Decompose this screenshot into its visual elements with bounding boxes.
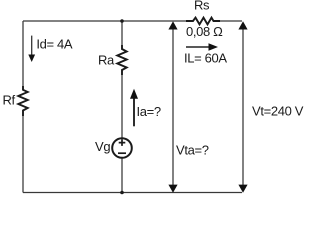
svg-text:Vta=?: Vta=? [176, 143, 209, 158]
node junction top (middle branch to top wire) [120, 19, 124, 23]
svg-text:Rf: Rf [3, 93, 16, 108]
label Vt=240 V [252, 104, 304, 119]
label IL= 60A [184, 51, 227, 66]
value label 0,08 Ω [186, 24, 223, 39]
voltage arrow Vt (double-headed vertical at x=243, right branch) [238, 21, 247, 193]
svg-text:IL= 60A: IL= 60A [184, 51, 227, 66]
wire middle branch (top junction to Ra, Ra to Vg, Vg to bottom junction) [121, 21, 123, 193]
label Vta=? [176, 143, 209, 158]
current arrow Id (pointing down) [28, 36, 35, 62]
svg-text:0,08 Ω: 0,08 Ω [186, 24, 223, 39]
svg-text:Id= 4A: Id= 4A [36, 37, 73, 52]
source Vg (circle with + and -) [112, 138, 132, 158]
svg-text:Ia=?: Ia=? [137, 104, 161, 119]
resistor Ra (vertical zigzag in middle branch) [117, 45, 126, 75]
wire bottom [23, 192, 242, 194]
label Id= 4A [36, 37, 73, 52]
svg-text:Rs: Rs [194, 0, 210, 13]
label Vg [95, 139, 110, 154]
label Ra [98, 53, 115, 68]
resistor Rs (horizontal zigzag in top wire) [186, 18, 220, 25]
voltage arrow Vta (double-headed vertical at x=173) [168, 21, 177, 193]
svg-text:Vg: Vg [95, 139, 110, 154]
svg-text:Vt=240 V: Vt=240 V [252, 104, 304, 119]
wire top (from top-left corner to top-right, with Rs inline) [23, 20, 242, 22]
wire left (top-left corner down to Rf, and Rf to bottom-left corner) [22, 21, 24, 193]
label Rs [194, 0, 210, 13]
current arrow Ia (pointing up) [130, 89, 138, 127]
node junction bottom (middle branch to bottom wire) [120, 191, 124, 195]
label Ia=? [137, 104, 161, 119]
resistor Rf (vertical zigzag in left wire) [18, 86, 27, 116]
svg-text:Ra: Ra [98, 53, 115, 68]
current arrow IL (pointing right) [186, 43, 218, 51]
label Rf [3, 93, 16, 108]
